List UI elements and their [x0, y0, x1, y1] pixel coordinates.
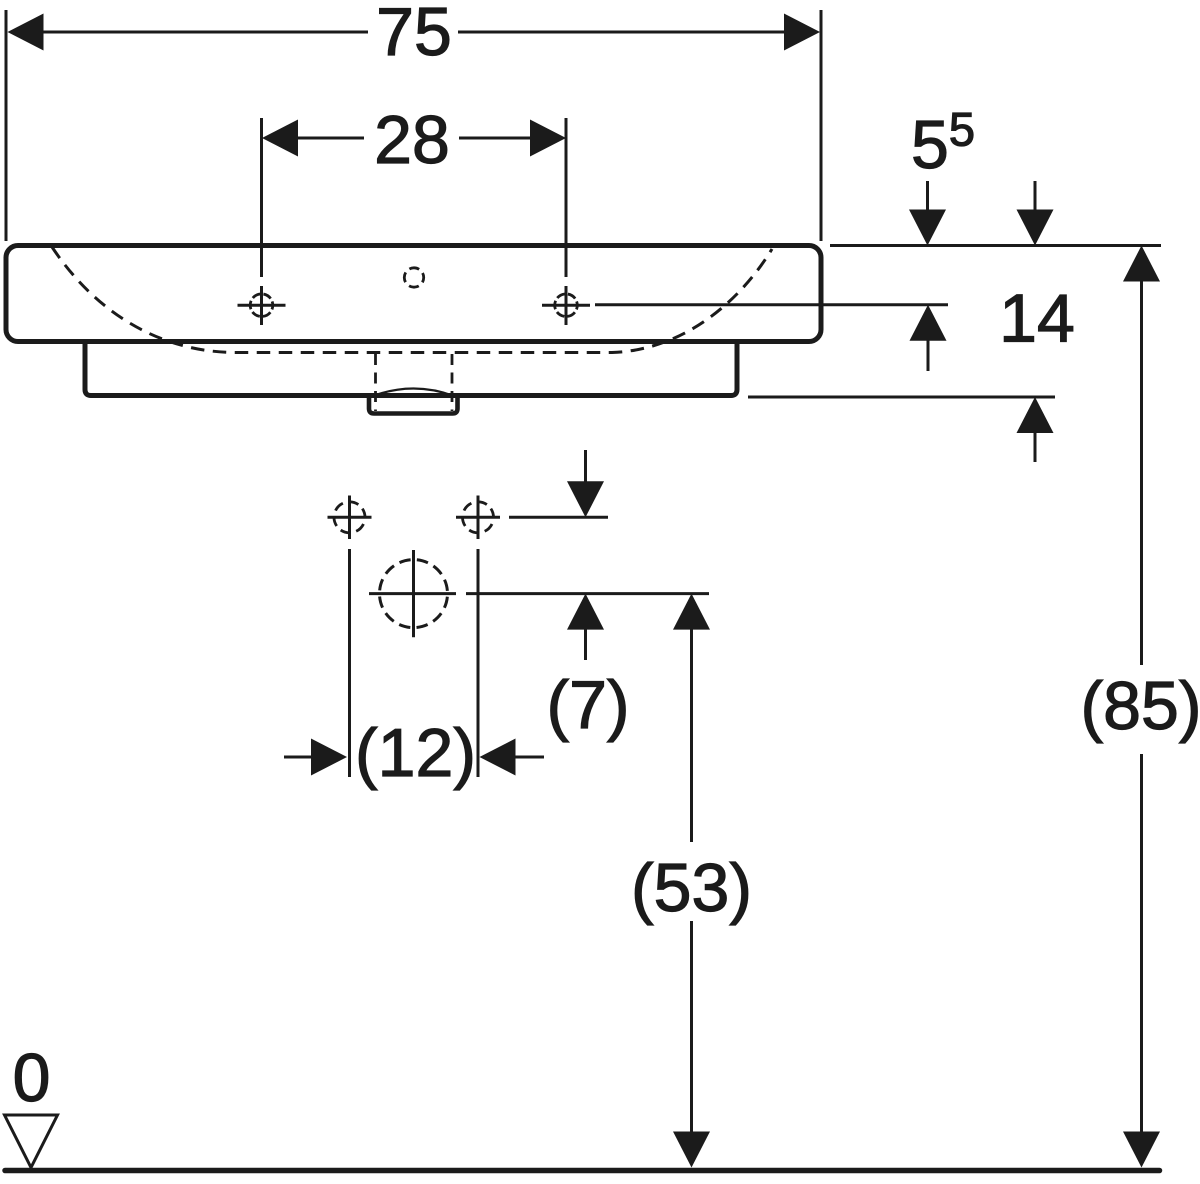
faucet hole left crosshair [238, 286, 286, 325]
dimension (53): line lower segment [690, 921, 693, 1134]
svg-text:(53): (53) [631, 850, 752, 926]
svg-text:75: 75 [376, 0, 452, 70]
dimension 14: up arrow [1017, 397, 1054, 433]
dimension (53): up arrow [673, 594, 710, 630]
dimension (85): down arrow [1123, 1132, 1160, 1168]
washbasin outer body [6, 246, 821, 342]
dimension (7): up arrow [567, 594, 604, 630]
dimension 28: extension line right [565, 118, 568, 277]
dimension (7): down arrow [584, 450, 587, 484]
dimension 14: down arrow [1034, 181, 1037, 212]
svg-text:(7): (7) [546, 667, 629, 743]
pedestal bottom reference line [748, 396, 1055, 399]
dimension (7): top short line [509, 516, 608, 519]
datum zero triangle [5, 1115, 58, 1168]
dimension 28: right arrowhead [530, 120, 566, 157]
dimension 5.5: up arrow [910, 305, 947, 341]
top reference line (basin rim level) [830, 244, 1161, 247]
mounting hole left crosshair [328, 496, 372, 540]
dimension 75: left arrowhead [8, 14, 44, 51]
siphon dashed circle [380, 560, 448, 628]
svg-text:14: 14 [999, 281, 1075, 357]
dimension 75: line segments [41, 31, 786, 34]
pedestal / washbasin lower body [85, 342, 737, 396]
overflow knockout dashed circle [404, 268, 423, 287]
dimension (12): left tail + right-pointing arrowhead [284, 756, 312, 759]
dimension 75: extension line left [5, 10, 8, 241]
svg-text:0: 0 [13, 1040, 51, 1116]
dimension 75: right arrowhead [784, 14, 820, 51]
drain hidden dashed vertical left [374, 354, 377, 411]
svg-text:28: 28 [374, 102, 450, 178]
dimension (85): line lower segment [1140, 754, 1143, 1134]
drain dome arc [373, 389, 454, 397]
dimension (53): down arrow [673, 1132, 710, 1168]
dimension 28: left arrowhead [262, 120, 298, 157]
dimension 5.5: down arrow [926, 181, 929, 212]
svg-text:(85): (85) [1081, 668, 1200, 744]
svg-text:(12): (12) [355, 715, 476, 791]
faucet hole right crosshair [542, 286, 590, 325]
dimension (85): up arrow [1123, 246, 1160, 282]
siphon crosshair [369, 550, 456, 637]
siphon level reference line [466, 592, 709, 595]
faucet hole reference line [595, 303, 948, 306]
dimension (12): extension line left [348, 549, 351, 777]
dimension (53): line upper segment [690, 628, 693, 842]
floor line [5, 1168, 1160, 1174]
drain trap cup [369, 397, 458, 414]
dimension 75: extension line right [820, 10, 823, 241]
dimension 28: extension line left [260, 118, 263, 277]
dimension 28: line segments [296, 137, 532, 140]
dimension (12): right tail + left-pointing arrowhead [516, 756, 545, 759]
dimension (85): line upper segment [1140, 280, 1143, 665]
drain hidden dashed vertical right [451, 354, 454, 411]
basin inner bowl dashed outline [52, 247, 772, 353]
mounting hole right crosshair [456, 496, 500, 540]
dimension (12): extension line right [477, 549, 480, 777]
